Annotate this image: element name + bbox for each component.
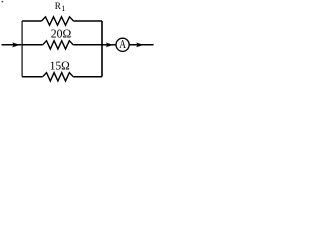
svg-text:20Ω: 20Ω [51,26,72,40]
current arrow out [136,43,143,48]
svg-text:R: R [55,1,61,12]
wire: middle branch right [73,44,102,46]
wire: top branch right [74,20,103,22]
current arrow into ammeter [106,43,113,48]
svg-text:A: A [119,37,126,51]
wire: middle branch left [22,44,43,46]
node: left bus [21,21,23,77]
wire: input lead left [2,44,22,46]
wire: right bus to ammeter [102,44,116,46]
wire: bottom branch left [22,76,43,78]
stray dot artifact top-left [2,1,4,3]
background [0,0,158,91]
wire: ammeter output lead [129,44,153,46]
wire: bottom branch right [73,76,102,78]
resistor 20ohm [43,41,73,49]
ammeter A [116,38,129,51]
node: right bus [101,21,103,77]
wire: top branch left [22,20,41,22]
resistor 15ohm [43,73,73,81]
resistor R1 [42,17,74,25]
svg-text:1: 1 [61,4,65,13]
svg-text:15Ω: 15Ω [50,59,70,73]
current arrow into left node [12,42,20,47]
